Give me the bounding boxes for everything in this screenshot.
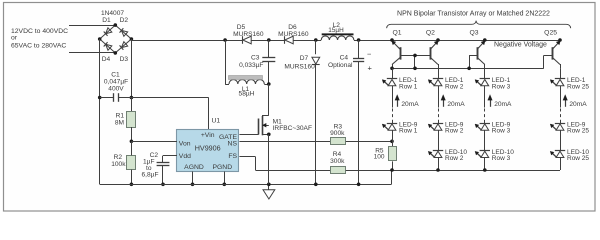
- svg-text:C3: C3: [251, 54, 260, 61]
- svg-text:300k: 300k: [330, 158, 345, 165]
- svg-text:MURS160: MURS160: [233, 31, 264, 38]
- svg-text:Row 25: Row 25: [567, 83, 589, 90]
- svg-text:C1: C1: [111, 71, 120, 78]
- svg-text:FS: FS: [228, 153, 237, 160]
- svg-text:Q25: Q25: [544, 29, 557, 36]
- svg-text:D3: D3: [120, 56, 129, 63]
- svg-text:Q2: Q2: [426, 29, 435, 36]
- svg-text:20mA: 20mA: [447, 101, 465, 108]
- svg-text:8M: 8M: [115, 119, 124, 126]
- svg-text:MURS160: MURS160: [284, 63, 315, 70]
- svg-text:Row 2: Row 2: [445, 83, 464, 90]
- svg-text:Row 1: Row 1: [399, 83, 418, 90]
- svg-text:20mA: 20mA: [569, 101, 587, 108]
- svg-text:MURS160: MURS160: [278, 31, 309, 38]
- svg-text:100k: 100k: [111, 161, 126, 168]
- svg-text:12VDC to 400VDC: 12VDC to 400VDC: [11, 28, 68, 35]
- svg-text:−: −: [367, 50, 372, 59]
- svg-text:20mA: 20mA: [401, 101, 419, 108]
- svg-text:Von: Von: [179, 141, 191, 148]
- svg-text:6,8µF: 6,8µF: [142, 171, 159, 178]
- svg-text:1N4007: 1N4007: [101, 10, 124, 17]
- svg-text:Row 25: Row 25: [567, 155, 589, 162]
- svg-text:58µH: 58µH: [239, 91, 255, 98]
- svg-text:400V: 400V: [108, 85, 124, 92]
- svg-text:NPN Bipolar Transistor Array o: NPN Bipolar Transistor Array or Matched …: [397, 11, 550, 18]
- svg-text:Row 3: Row 3: [492, 83, 511, 90]
- svg-text:Negative Voltage: Negative Voltage: [494, 41, 547, 48]
- svg-text:Q1: Q1: [392, 29, 401, 36]
- svg-text:Row 2: Row 2: [445, 155, 464, 162]
- svg-text:900k: 900k: [330, 130, 345, 137]
- svg-text:D2: D2: [120, 17, 129, 24]
- svg-text:D7: D7: [300, 55, 309, 62]
- svg-text:Optional: Optional: [328, 62, 353, 69]
- svg-text:100: 100: [374, 154, 385, 161]
- svg-text:Row 3: Row 3: [492, 155, 511, 162]
- svg-text:65VAC to 280VAC: 65VAC to 280VAC: [11, 42, 66, 49]
- svg-text:D1: D1: [102, 17, 111, 24]
- svg-text:NS: NS: [228, 141, 238, 148]
- svg-text:Q3: Q3: [469, 29, 478, 36]
- svg-text:AGND: AGND: [184, 164, 204, 171]
- svg-text:+Vin: +Vin: [201, 132, 215, 139]
- svg-text:Row 1: Row 1: [399, 128, 418, 135]
- svg-text:15µH: 15µH: [328, 27, 344, 34]
- svg-text:Row 2: Row 2: [445, 128, 464, 135]
- svg-text:0,033µF: 0,033µF: [239, 62, 263, 69]
- svg-text:Row 25: Row 25: [567, 128, 589, 135]
- svg-text:C4: C4: [340, 55, 349, 62]
- svg-text:D4: D4: [102, 56, 111, 63]
- svg-text:+: +: [368, 63, 373, 72]
- svg-text:Row 3: Row 3: [492, 128, 511, 135]
- svg-text:PGND: PGND: [212, 164, 232, 171]
- svg-text:HV9906: HV9906: [195, 144, 221, 153]
- svg-text:Vdd: Vdd: [179, 153, 191, 160]
- svg-text:IRFBC~30AF: IRFBC~30AF: [273, 125, 312, 132]
- svg-text:or: or: [11, 34, 18, 41]
- svg-text:U1: U1: [212, 118, 221, 125]
- svg-text:20mA: 20mA: [494, 101, 512, 108]
